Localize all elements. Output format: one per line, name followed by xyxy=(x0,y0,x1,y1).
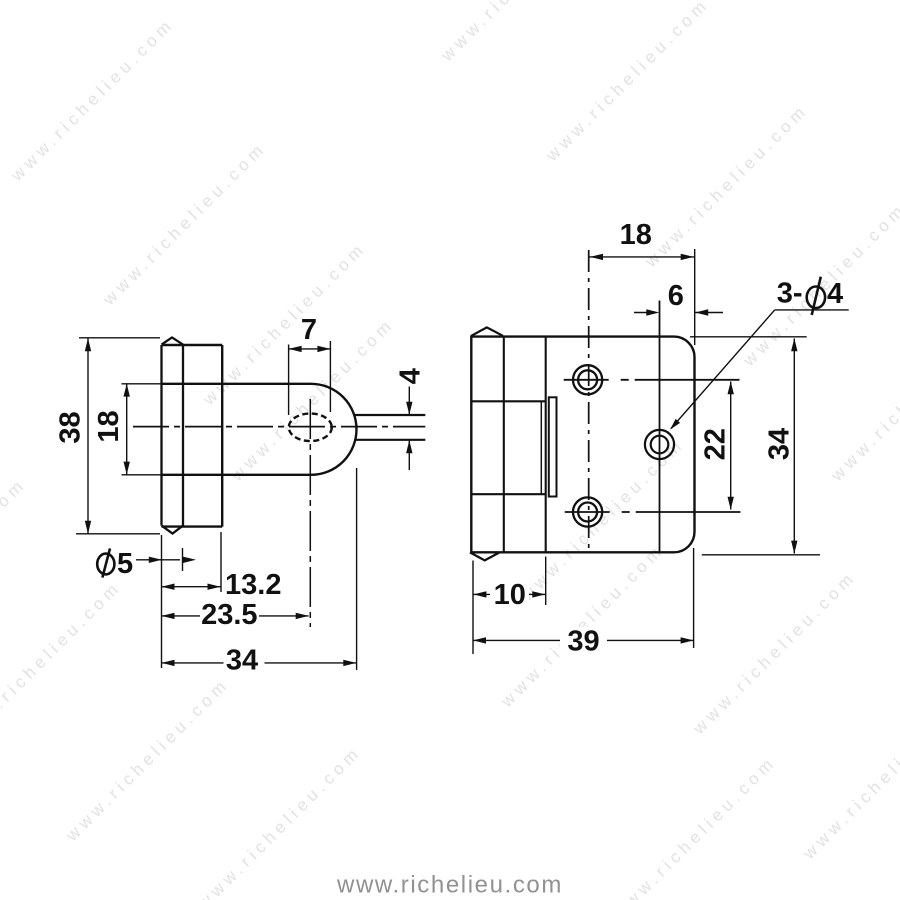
svg-text:18: 18 xyxy=(620,219,652,251)
dim 13.2 right extension line xyxy=(220,532,222,592)
right view: middle knuckle edge xyxy=(540,401,542,494)
right view: middle screw hole xyxy=(645,430,674,459)
dim 22 line xyxy=(730,382,732,510)
svg-text:www.richelieu.com: www.richelieu.com xyxy=(62,674,233,845)
svg-text:39: 39 xyxy=(567,626,599,658)
right view: knuckle divider lines xyxy=(471,401,545,494)
svg-text:www.richelieu.com: www.richelieu.com xyxy=(827,314,900,485)
right view: leaf fold line xyxy=(545,337,547,553)
label 3-phi4 leader line xyxy=(775,309,849,311)
svg-text:www.richelieu.com: www.richelieu.com xyxy=(336,872,563,899)
left view: pin stub lines xyxy=(355,415,426,440)
svg-text:13.2: 13.2 xyxy=(225,569,281,601)
dim 7 line xyxy=(289,348,331,350)
dim 34 line xyxy=(793,339,795,554)
svg-text:3-: 3- xyxy=(777,278,803,310)
svg-text:5: 5 xyxy=(117,548,133,580)
dim 10 extension lines xyxy=(473,557,546,655)
svg-text:www.richelieu.com: www.richelieu.com xyxy=(437,0,608,66)
dim phi5 right extension tick xyxy=(182,548,184,571)
right view: mating leaf edge strip xyxy=(549,397,557,496)
shared left extension line below barrel xyxy=(161,535,163,668)
dim 13.2 line xyxy=(162,586,221,588)
dim 34 extension lines xyxy=(690,337,820,555)
dim 18 line xyxy=(126,384,128,475)
dim 34 line xyxy=(162,662,357,664)
left view: tab edge extension lines xyxy=(122,384,162,475)
dim 39 line xyxy=(473,639,694,641)
svg-text:38: 38 xyxy=(55,411,87,443)
svg-text:www.richelieu.com: www.richelieu.com xyxy=(689,567,860,738)
dim 18 right extension line xyxy=(694,249,696,345)
svg-text:23.5: 23.5 xyxy=(201,599,257,631)
right view: bottom screw hole xyxy=(573,497,602,526)
left view: tab with rounded end xyxy=(162,384,357,475)
dim 10 line xyxy=(473,593,546,595)
dim 7 extension lines xyxy=(289,341,331,415)
right view: leaf plate outline xyxy=(471,337,694,553)
dim 18 line xyxy=(589,256,695,258)
right view: screw hole column centerline xyxy=(588,250,590,552)
svg-text:34: 34 xyxy=(226,645,258,677)
svg-text:www.richelieu.com: www.richelieu.com xyxy=(99,138,270,309)
svg-text:www.richelieu.com: www.richelieu.com xyxy=(641,100,812,271)
dim 38 extension lines xyxy=(76,338,160,534)
svg-text:6: 6 xyxy=(668,280,684,312)
right view: top screw hole xyxy=(573,365,602,394)
svg-text:www.richelieu.com: www.richelieu.com xyxy=(609,752,780,900)
left view: dashed pin hole ellipse xyxy=(289,414,332,442)
right view: barrel inner vertical xyxy=(503,337,505,553)
dim 34 right extension line xyxy=(356,468,358,670)
right view: top hole horizontal centerline xyxy=(564,379,740,381)
svg-text:www.richelieu.com: www.richelieu.com xyxy=(542,0,713,166)
svg-text:www.richelieu.com: www.richelieu.com xyxy=(7,14,178,185)
dim 6 lines xyxy=(634,312,723,314)
label phi5 symbol xyxy=(97,554,114,575)
svg-text:7: 7 xyxy=(301,314,317,346)
left view: pin horizontal centerline xyxy=(133,426,425,428)
left view: flange plate edge-on xyxy=(162,345,223,527)
dim 23.5 line xyxy=(162,615,309,617)
svg-text:4: 4 xyxy=(394,368,426,384)
svg-text:www.richelieu.com: www.richelieu.com xyxy=(0,474,30,645)
dim phi5 leader line xyxy=(136,559,180,561)
svg-text:18: 18 xyxy=(93,410,125,442)
svg-text:4: 4 xyxy=(827,278,843,310)
svg-text:www.richelieu.com: www.richelieu.com xyxy=(0,577,125,748)
dim 38 line xyxy=(87,338,89,533)
right view: barrel top chamfer xyxy=(471,327,503,335)
svg-text:10: 10 xyxy=(494,579,526,611)
left view: hole vertical centerline xyxy=(309,399,311,627)
svg-text:34: 34 xyxy=(764,428,796,460)
right view: middle hole vertical centerline xyxy=(659,301,661,553)
right view: barrel bottom chamfer xyxy=(470,552,500,560)
dim 39 right extension line xyxy=(693,548,695,648)
svg-text:22: 22 xyxy=(700,428,732,460)
svg-text:www.richelieu.com: www.richelieu.com xyxy=(799,692,900,863)
left view: knuckle barrel side xyxy=(162,345,184,526)
dim 4 lines xyxy=(408,387,410,471)
right view: bottom hole horizontal centerline xyxy=(565,511,741,513)
